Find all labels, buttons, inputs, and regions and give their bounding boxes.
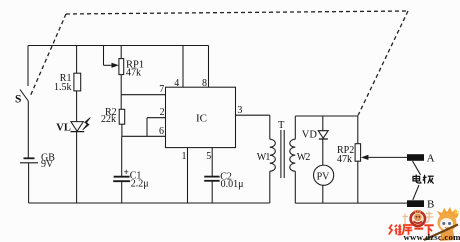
- svg-text:6: 6: [159, 126, 164, 137]
- svg-text:VL: VL: [56, 122, 71, 133]
- svg-text:A: A: [427, 153, 435, 165]
- svg-text:PV: PV: [317, 171, 331, 182]
- svg-text:2: 2: [160, 107, 165, 118]
- svg-text:0.01μ: 0.01μ: [221, 179, 244, 190]
- svg-text:1: 1: [182, 151, 187, 162]
- svg-text:47k: 47k: [337, 154, 352, 165]
- svg-text:2.2μ: 2.2μ: [131, 178, 149, 189]
- svg-text:W1: W1: [257, 152, 271, 163]
- svg-text:47k: 47k: [126, 68, 141, 79]
- svg-text:+: +: [124, 167, 129, 177]
- svg-text:7: 7: [159, 84, 164, 95]
- svg-text:VD: VD: [302, 129, 318, 140]
- svg-text:IC: IC: [196, 112, 207, 124]
- svg-text:5: 5: [206, 151, 211, 162]
- svg-text:S: S: [15, 93, 21, 105]
- svg-text:22k: 22k: [101, 114, 116, 125]
- svg-text:1.5k: 1.5k: [54, 82, 72, 93]
- svg-text:3: 3: [237, 105, 242, 116]
- svg-text:B: B: [427, 199, 434, 211]
- svg-text:T: T: [278, 120, 285, 131]
- svg-text:4: 4: [174, 78, 179, 89]
- svg-text:www.dzsc.com: www.dzsc.com: [404, 232, 460, 242]
- svg-text:8: 8: [202, 78, 207, 89]
- svg-text:W2: W2: [297, 152, 311, 163]
- svg-text:9V: 9V: [41, 159, 54, 170]
